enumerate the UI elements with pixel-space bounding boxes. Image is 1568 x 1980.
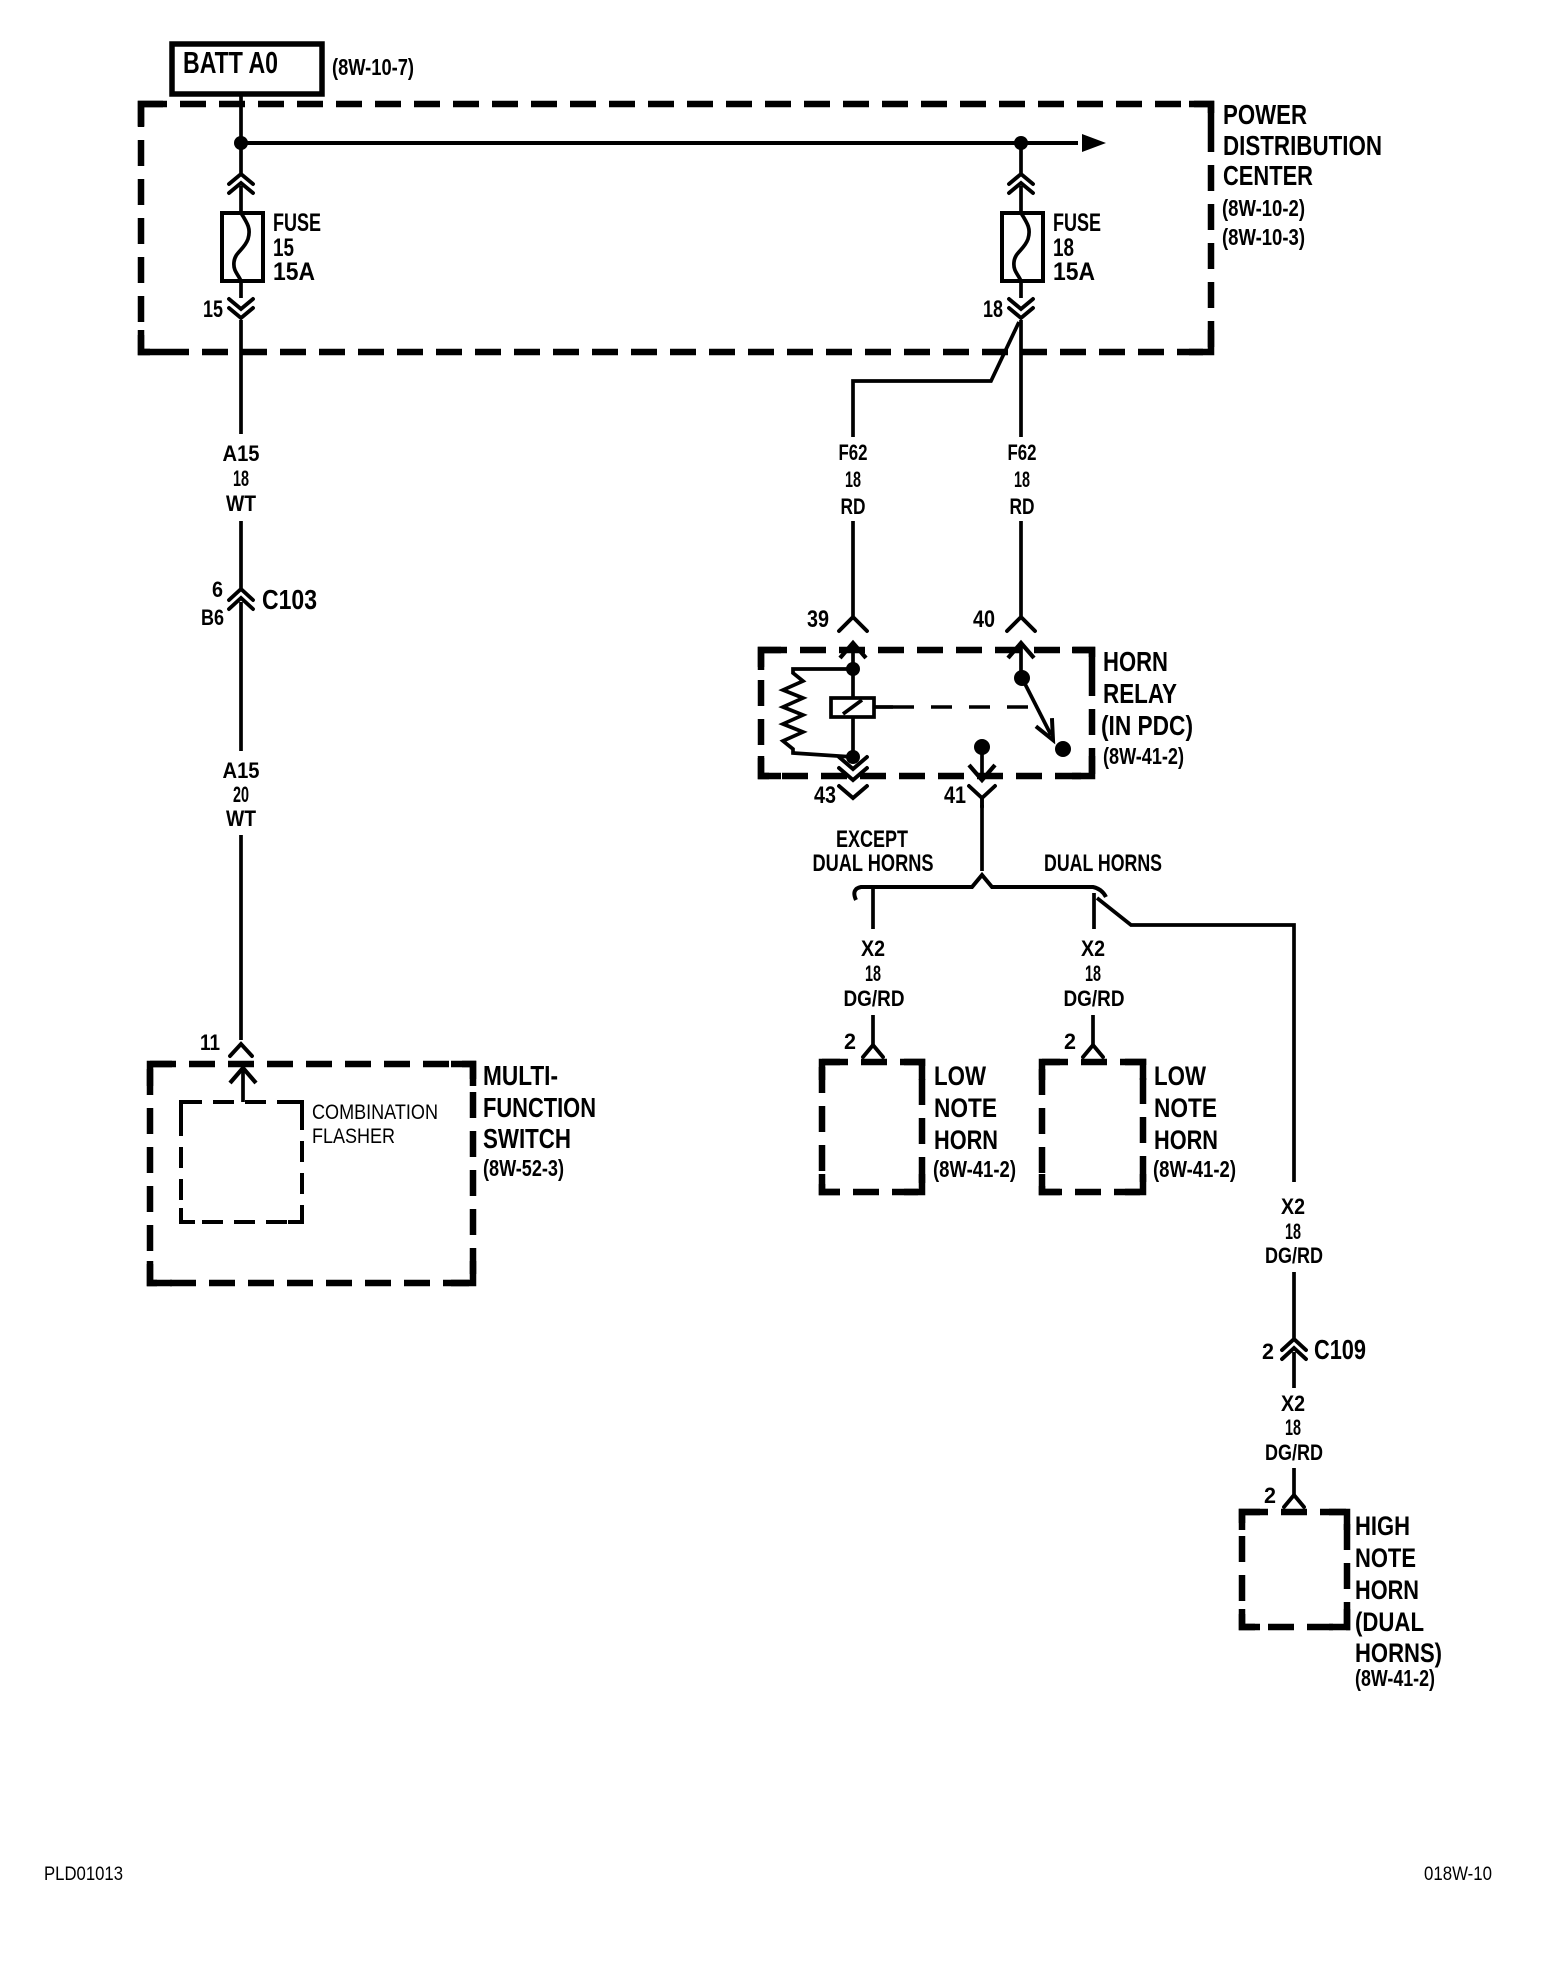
svg-text:43: 43 (814, 782, 836, 809)
svg-text:18: 18 (1085, 961, 1101, 986)
battery feed box BATT A0 (172, 44, 322, 94)
svg-text:FUSE: FUSE (273, 209, 321, 237)
svg-text:A15: A15 (223, 758, 260, 783)
connector C109 (1262, 1334, 1366, 1365)
svg-text:11: 11 (200, 1030, 220, 1055)
wire left branch to horn (871, 1015, 875, 1045)
relay common pole (969, 739, 995, 780)
svg-text:DISTRIBUTION: DISTRIBUTION (1223, 130, 1382, 161)
svg-text:(8W-10-3): (8W-10-3) (1222, 224, 1305, 250)
wire label X2 18 DG/RD (middle) (1064, 936, 1125, 1011)
svg-text:F62: F62 (1008, 440, 1037, 465)
combination flasher inner dashed box (181, 1102, 302, 1222)
svg-text:20: 20 (233, 782, 249, 807)
junction at BATT feed (234, 136, 248, 150)
connector chevrons above fuse 18 (1009, 174, 1033, 193)
svg-text:2: 2 (1262, 1339, 1274, 1364)
pin 39 entry arrow (840, 643, 866, 669)
svg-text:DG/RD: DG/RD (1064, 986, 1125, 1011)
label HORN RELAY (IN PDC) (1101, 646, 1193, 769)
svg-text:DUAL HORNS: DUAL HORNS (1044, 850, 1162, 877)
svg-text:18: 18 (1285, 1415, 1301, 1440)
fuse 15 (222, 213, 263, 281)
relay coil bottom node (846, 750, 860, 764)
svg-text:BATT A0: BATT A0 (183, 45, 278, 80)
svg-text:RD: RD (841, 494, 866, 519)
pin 40 connector (1007, 617, 1035, 631)
svg-text:HORN: HORN (1103, 646, 1168, 677)
fuse 18 value label (1053, 209, 1101, 286)
fuse 15 value label (273, 209, 321, 286)
label HIGH NOTE HORN (DUAL HORNS) (1355, 1511, 1442, 1691)
svg-text:18: 18 (865, 961, 881, 986)
svg-text:18: 18 (983, 296, 1003, 323)
wire label X2 18 DG/RD (left) (844, 936, 905, 1011)
svg-text:RELAY: RELAY (1103, 678, 1177, 709)
svg-text:(8W-52-3): (8W-52-3) (483, 1155, 564, 1181)
wire label F62 18 RD (left) (839, 440, 868, 519)
svg-text:HORN: HORN (934, 1125, 998, 1155)
wire right branch run (1097, 898, 1294, 1182)
pin 11 connector legs (230, 1044, 252, 1056)
label LOW NOTE HORN (middle) (1153, 1061, 1236, 1182)
svg-text:15: 15 (203, 296, 223, 323)
relay switch fixed contact (1014, 670, 1030, 686)
junction at fuse 18 tap (1014, 136, 1028, 150)
relay coil wire (851, 669, 855, 757)
svg-text:WT: WT (226, 491, 256, 516)
label POWER DISTRIBUTION CENTER (1222, 99, 1382, 250)
low note horn dashed box (left) (822, 1062, 922, 1192)
label LOW NOTE HORN (left) (933, 1061, 1016, 1182)
relay coil top node (846, 662, 860, 676)
svg-text:A15: A15 (223, 441, 260, 466)
svg-text:COMBINATION: COMBINATION (312, 1101, 438, 1124)
wire label X2 18 DG/RD (right lower) (1265, 1391, 1323, 1465)
svg-text:41: 41 (944, 782, 966, 809)
wire left branch tick (871, 889, 875, 929)
svg-text:F62: F62 (839, 440, 868, 465)
label COMBINATION FLASHER (312, 1101, 438, 1148)
wire chevron to fuse 18 (1019, 186, 1023, 213)
svg-text:PLD01013: PLD01013 (44, 1864, 123, 1885)
bus arrowhead (1082, 134, 1106, 152)
wire A15 to multi-function switch pin 11 (239, 835, 243, 1040)
relay switch arm (1022, 678, 1071, 757)
wire pin 18 down to F62 right branch (1019, 320, 1023, 437)
svg-text:HORN: HORN (1154, 1125, 1218, 1155)
svg-text:LOW: LOW (934, 1061, 986, 1091)
svg-text:RD: RD (1010, 494, 1035, 519)
pin 40 entry arrow (1008, 643, 1034, 678)
low note horn dashed box (middle) (1042, 1062, 1143, 1192)
wire to connector C109 (1292, 1272, 1296, 1338)
pin 15 chevrons (229, 299, 253, 318)
wire label X2 18 DG/RD (right upper) (1265, 1194, 1323, 1268)
svg-text:X2: X2 (1281, 1194, 1305, 1219)
svg-text:C109: C109 (1314, 1334, 1366, 1365)
svg-text:2: 2 (1064, 1029, 1076, 1054)
svg-text:X2: X2 (1081, 936, 1105, 961)
wire fuse 15 to pin 15 (239, 281, 243, 298)
wire diagonal tap to F62 left branch (853, 322, 1019, 437)
svg-text:(8W-41-2): (8W-41-2) (1103, 743, 1184, 769)
multi-function switch dashed box (150, 1064, 473, 1283)
svg-text:C103: C103 (262, 584, 317, 615)
svg-text:WT: WT (226, 806, 256, 831)
svg-text:EXCEPT: EXCEPT (836, 826, 908, 853)
svg-text:18: 18 (845, 467, 861, 492)
svg-text:(8W-41-2): (8W-41-2) (1153, 1156, 1236, 1182)
svg-text:(DUAL: (DUAL (1355, 1607, 1424, 1637)
wire fuse 18 to pin 18 (1019, 281, 1023, 298)
svg-text:39: 39 (807, 606, 829, 633)
pin 41 connector (969, 786, 995, 807)
pin 2 connector (middle horn) (1083, 1045, 1103, 1057)
wire label A15 18 WT (223, 441, 260, 516)
svg-text:(8W-10-7): (8W-10-7) (332, 54, 414, 80)
svg-text:SWITCH: SWITCH (483, 1123, 571, 1154)
svg-text:6: 6 (212, 577, 223, 602)
svg-text:18: 18 (1285, 1219, 1301, 1244)
svg-text:X2: X2 (1281, 1391, 1305, 1416)
wire pin 15 out of PDC (239, 320, 243, 434)
high note horn dashed box (1242, 1512, 1347, 1627)
pin 43 outer chevron (839, 786, 867, 798)
wire split brace (854, 875, 1106, 900)
wire F62 right to relay pin 40 (1019, 521, 1023, 616)
wire to high note horn (1292, 1468, 1296, 1495)
pin 43 chevrons (839, 757, 867, 780)
wire label A15 20 WT (223, 758, 260, 831)
svg-text:HORNS): HORNS) (1355, 1638, 1442, 1668)
svg-text:HORN: HORN (1355, 1575, 1419, 1605)
relay armature linkage (dashed) (874, 705, 1032, 709)
svg-text:(8W-10-2): (8W-10-2) (1222, 195, 1305, 221)
svg-text:40: 40 (973, 606, 995, 633)
power distribution center dashed box (141, 104, 1211, 352)
svg-text:DG/RD: DG/RD (844, 986, 905, 1011)
wire A15 to connector C103 (239, 521, 243, 588)
svg-text:B6: B6 (201, 605, 224, 630)
wire F62 left to relay pin 39 (851, 521, 855, 616)
svg-text:LOW: LOW (1154, 1061, 1206, 1091)
wire bus to fuse 18 (1019, 143, 1023, 173)
wire middle branch tick (1092, 893, 1096, 929)
connector chevrons above fuse 15 (229, 174, 253, 193)
pin 18 chevrons (1009, 299, 1033, 318)
wire C103 down (239, 602, 243, 751)
svg-text:(8W-41-2): (8W-41-2) (933, 1156, 1016, 1182)
svg-text:FUNCTION: FUNCTION (483, 1092, 596, 1123)
relay coil box (831, 698, 874, 717)
pin 2 connector (high note horn) (1284, 1495, 1304, 1507)
svg-text:18: 18 (233, 466, 249, 491)
horn relay dashed box (761, 650, 1092, 776)
svg-text:2: 2 (844, 1029, 856, 1054)
wire chevron to fuse 15 (239, 186, 243, 213)
wire C109 down (1292, 1352, 1296, 1388)
label EXCEPT DUAL HORNS (813, 826, 934, 877)
svg-text:NOTE: NOTE (934, 1093, 997, 1123)
label MULTI-FUNCTION SWITCH (483, 1060, 596, 1181)
svg-text:18: 18 (1014, 467, 1030, 492)
svg-text:018W-10: 018W-10 (1424, 1864, 1492, 1885)
wire from BATT A0 into PDC (239, 94, 243, 143)
connector C103 (201, 577, 317, 630)
relay coil resistance element (783, 669, 853, 757)
svg-text:15A: 15A (273, 258, 315, 286)
wire label F62 18 RD (right) (1008, 440, 1037, 519)
svg-text:DG/RD: DG/RD (1265, 1440, 1323, 1465)
pin 2 connector (left horn) (863, 1045, 883, 1057)
svg-text:MULTI-: MULTI- (483, 1060, 558, 1091)
wire pin 41 down to split (980, 805, 984, 871)
svg-text:DG/RD: DG/RD (1265, 1243, 1323, 1268)
pin 39 connector (839, 617, 867, 631)
wire middle branch to horn (1091, 1015, 1095, 1045)
svg-text:CENTER: CENTER (1223, 160, 1313, 191)
svg-text:X2: X2 (861, 936, 885, 961)
svg-text:FLASHER: FLASHER (312, 1125, 395, 1148)
svg-text:15A: 15A (1053, 258, 1095, 286)
svg-text:(IN PDC): (IN PDC) (1101, 710, 1193, 741)
bus wire inside PDC (241, 141, 1078, 145)
fuse 18 (1002, 213, 1043, 281)
pin 11 entry arrow (230, 1068, 256, 1102)
svg-text:FUSE: FUSE (1053, 209, 1101, 237)
wire bus to fuse 15 (239, 143, 243, 173)
svg-text:NOTE: NOTE (1154, 1093, 1217, 1123)
svg-text:DUAL HORNS: DUAL HORNS (813, 850, 934, 877)
svg-text:HIGH: HIGH (1355, 1511, 1410, 1541)
svg-text:2: 2 (1264, 1483, 1276, 1508)
svg-text:(8W-41-2): (8W-41-2) (1355, 1665, 1435, 1691)
svg-text:NOTE: NOTE (1355, 1543, 1416, 1573)
svg-text:POWER: POWER (1223, 99, 1307, 130)
